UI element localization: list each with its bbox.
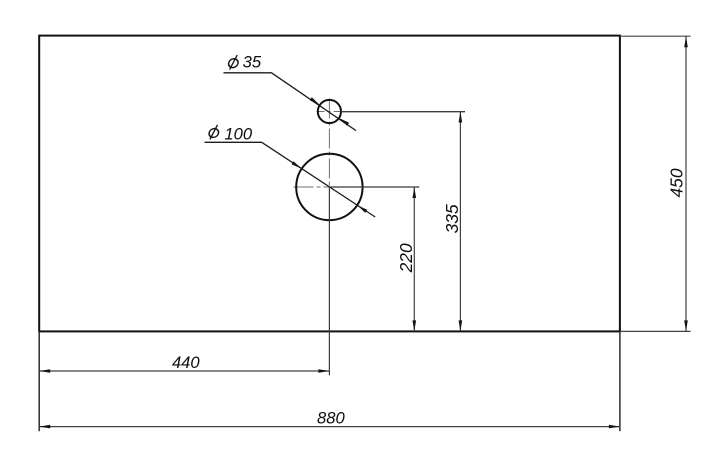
countertop outline rectangle 880x450 xyxy=(39,36,620,332)
label D35 xyxy=(228,55,239,70)
hole D35 circle xyxy=(318,100,341,123)
svg-text:880: 880 xyxy=(317,409,345,428)
leader line D35 xyxy=(224,73,357,131)
dimension line 880 xyxy=(39,426,620,428)
extension line from D100 center down to 440 dim xyxy=(328,187,330,375)
bottom-right extension line xyxy=(620,330,691,332)
leader line D100 xyxy=(205,142,376,217)
right extension line below rectangle xyxy=(619,331,621,431)
extension line from D100 center to 220 dim xyxy=(329,186,419,188)
top-right extension line xyxy=(620,35,691,37)
hole D100 circle xyxy=(296,154,362,220)
horizontal centerline small hole xyxy=(317,111,341,113)
svg-text:100: 100 xyxy=(224,124,252,143)
svg-text:335: 335 xyxy=(442,204,462,233)
dimension line 450 xyxy=(685,36,687,331)
dimension line 440 xyxy=(39,370,329,372)
svg-text:450: 450 xyxy=(667,168,687,197)
horizontal centerline large hole xyxy=(294,186,330,188)
svg-text:440: 440 xyxy=(172,353,200,372)
left extension line below rectangle xyxy=(38,331,40,431)
label D100 xyxy=(208,125,219,140)
extension line from D35 center to 335 dim xyxy=(341,111,465,113)
svg-text:220: 220 xyxy=(396,243,416,273)
dimension line 220 xyxy=(413,187,415,331)
dimension line 335 xyxy=(459,112,461,332)
svg-text:35: 35 xyxy=(243,52,262,71)
arrowheads D100 xyxy=(292,161,302,169)
vertical centerline through both holes xyxy=(328,99,330,188)
arrowheads D35 xyxy=(310,97,320,105)
